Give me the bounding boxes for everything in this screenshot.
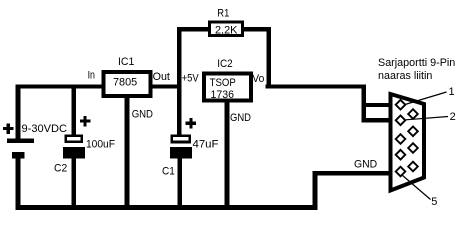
pin 3 [396,134,406,144]
svg-text:IC2: IC2 [217,58,233,70]
label R1 [217,8,229,20]
label IC1 [118,56,134,68]
capacitor C1 [170,118,196,210]
svg-text:5: 5 [431,196,437,208]
svg-text:7805: 7805 [113,77,137,89]
pin 2 [396,116,406,126]
wire battery top lead [16,85,21,139]
svg-text:GND: GND [354,158,377,170]
label IC2 [217,58,233,70]
wire IC1 GND lead [125,98,130,210]
label 9-30VDC [22,123,68,135]
pin 5 [396,167,406,177]
svg-text:Out: Out [153,71,170,83]
pin 1 [396,100,406,110]
svg-text:1736: 1736 [211,89,235,101]
svg-text:TSOP: TSOP [210,77,236,89]
svg-text:IC1: IC1 [118,56,134,68]
battery B1 9-30VDC [3,123,34,210]
wire positive rail battery to IC1 In [16,85,104,89]
wire bottom ground rail [16,205,318,210]
op-amp IC2 receiver box [204,74,251,101]
label +5V pin [182,72,200,84]
svg-text:1: 1 [449,86,455,98]
wire callout pin 2 [406,117,448,120]
label pin number 2 [450,111,456,123]
connector J1 DB9 outline [391,94,425,191]
node +5V rail (R1 left leg down to C1) [177,27,182,136]
svg-text:R1: R1 [217,8,229,20]
label GND IC2 [230,112,251,124]
svg-text:+5V: +5V [182,72,200,84]
svg-text:9-30VDC: 9-30VDC [22,123,68,135]
label TSOP [210,77,236,89]
svg-text:Vo: Vo [252,73,264,85]
label C2 [54,163,67,175]
label GND near pin 5 [354,158,377,170]
label pin number 1 [449,86,455,98]
label 47uF [193,138,219,150]
label Vo pin [252,73,264,85]
wire Vo output run to connector [266,85,401,123]
label pin number 5 [431,196,437,208]
wire callout pin 5 [402,175,431,200]
resistor R1 [181,22,271,89]
pin 6 [408,109,418,119]
wire C2 top lead [72,85,77,137]
label 7805 [113,77,137,89]
pin 8 [408,143,418,153]
label 100uF [86,139,115,151]
svg-text:2: 2 [450,111,456,123]
svg-text:47uF: 47uF [193,138,219,150]
capacitor C2 [63,116,90,210]
svg-text:Sarjaportti 9-Pin: Sarjaportti 9-Pin [378,57,455,69]
label 1736 [211,89,235,101]
pin 7 [408,127,418,137]
svg-text:In: In [88,69,95,81]
wire IC2 GND lead [225,103,230,210]
label C1 [162,166,175,178]
wire callout pin 1 [405,92,447,105]
svg-text:GND: GND [230,112,251,124]
svg-text:C1: C1 [162,166,175,178]
label In pin [88,69,95,81]
svg-text:C2: C2 [54,163,67,175]
svg-text:naaras liitin: naaras liitin [378,70,432,82]
label 2,2K value [215,25,238,37]
label connector title [378,57,455,82]
op-amp IC1 regulator box [104,72,151,96]
label GND IC1 [132,109,153,121]
svg-text:100uF: 100uF [86,139,115,151]
wire ground branch to pin 5 [313,171,402,210]
pin 9 [408,162,418,172]
wire IC1 Out to +5V junction [152,85,182,89]
svg-text:GND: GND [132,109,153,121]
label Out pin [153,71,170,83]
svg-text:2,2K: 2,2K [215,25,238,37]
pin 4 [396,150,406,160]
